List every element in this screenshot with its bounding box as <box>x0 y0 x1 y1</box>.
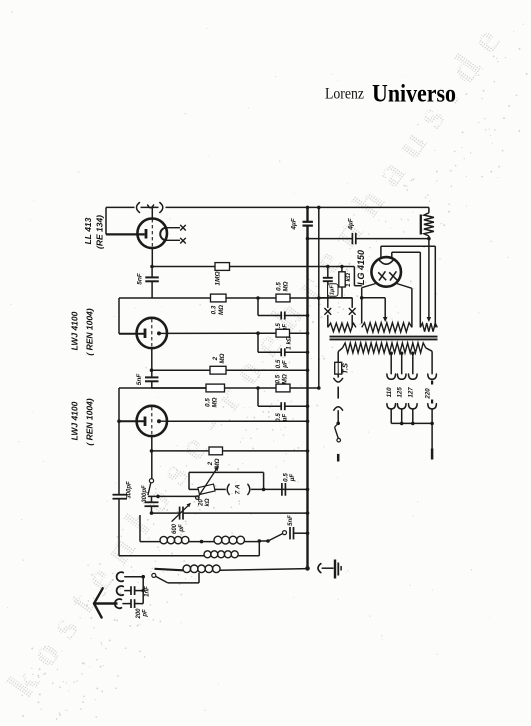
svg-text:1nF: 1nF <box>145 586 151 597</box>
wire HT row y=238.6 <box>306 237 310 241</box>
tube rectifier LG4150 <box>371 257 401 287</box>
switch contact <box>149 479 153 483</box>
wire anode B <box>391 252 393 258</box>
svg-text:MΩ: MΩ <box>218 305 225 315</box>
svg-text:Lorenz: Lorenz <box>325 86 364 103</box>
svg-text:220: 220 <box>424 388 431 400</box>
coil L1a <box>160 536 167 543</box>
resistor speaker field <box>428 207 430 212</box>
svg-text:127: 127 <box>408 387 415 398</box>
wire V1 filament leads <box>160 228 165 241</box>
wire row D <box>152 387 207 389</box>
wire row A <box>119 297 211 299</box>
capacitor 1nF <box>124 590 131 592</box>
wire grid V2 <box>118 298 120 334</box>
tap 220 <box>426 348 432 351</box>
wire V1 grid loop <box>105 207 107 234</box>
resistor 0.5M c <box>276 384 290 392</box>
wire anode A <box>380 246 382 258</box>
wire HT+ to winding <box>428 239 430 318</box>
wire filament left <box>362 284 376 288</box>
svg-text:2: 2 <box>207 461 214 466</box>
label 1uF boxed <box>328 284 338 296</box>
winding W1 filament <box>362 323 412 332</box>
svg-text:4µF: 4µF <box>291 217 298 230</box>
wire row plate V3 <box>167 420 308 422</box>
resistor 2M b <box>209 447 223 455</box>
tube V3 LWJ4100 <box>137 406 167 436</box>
wire coil row2 <box>119 555 204 557</box>
capacitor 5nF <box>151 267 153 278</box>
capacitor 5nF b <box>145 376 159 378</box>
tube V2 LWJ4100 <box>137 318 167 348</box>
capacitor 0.5uF d <box>281 483 283 496</box>
svg-text:0.5: 0.5 <box>276 282 283 291</box>
svg-text:LWJ 4100: LWJ 4100 <box>70 311 80 350</box>
coil L1b <box>214 536 222 544</box>
svg-text:(RE 134): (RE 134) <box>95 215 105 249</box>
resistor 1k a <box>276 329 290 337</box>
svg-text:( REN 1004): ( REN 1004) <box>85 398 95 445</box>
capacitor 0.5uF a <box>257 298 259 316</box>
wire B+ to rectifier <box>353 267 355 286</box>
svg-text:LWJ 4100: LWJ 4100 <box>70 401 80 440</box>
svg-text:1MΩ: 1MΩ <box>215 271 222 285</box>
wire row pickup <box>189 488 200 490</box>
wire main bus <box>306 206 310 210</box>
variable capacitor 600pF <box>179 507 181 520</box>
node B+ row <box>150 265 154 269</box>
svg-text:LG 4150: LG 4150 <box>356 250 366 285</box>
svg-text:4µF: 4µF <box>348 217 355 230</box>
switch mains <box>336 422 340 426</box>
speaker jack arcs <box>137 203 140 213</box>
resistor 1k b <box>341 267 343 272</box>
capacitor 0.5uF b <box>256 331 260 335</box>
tube V1 LL413 <box>137 219 167 249</box>
wire top line y=207 <box>106 206 135 208</box>
wire filament right <box>397 284 412 289</box>
svg-text:1µF: 1µF <box>329 284 335 295</box>
transformer core <box>330 336 438 338</box>
wire antenna bus <box>142 577 144 604</box>
coil L3 <box>155 569 184 571</box>
coil L2 <box>204 551 211 558</box>
node coil taps <box>258 539 262 543</box>
tap 125 <box>400 353 404 357</box>
resistor 0.3M <box>211 294 227 302</box>
switch wave <box>268 534 282 541</box>
winding primary <box>343 343 426 353</box>
svg-text:5nF: 5nF <box>136 373 143 386</box>
wire grid V3 <box>118 388 120 495</box>
box pickup <box>189 471 264 473</box>
resistor 1M <box>215 263 230 271</box>
svg-text:20: 20 <box>199 499 205 507</box>
svg-text:pF: pF <box>143 609 149 618</box>
x filament mark 4 <box>349 308 356 315</box>
plug contact lower <box>334 407 343 411</box>
plug contact upper <box>337 374 339 378</box>
jack arcs 7A <box>227 484 229 494</box>
svg-text:µF: µF <box>289 474 296 483</box>
wire L3 to ground bus <box>220 569 308 571</box>
wire row E <box>150 449 154 453</box>
svg-text:MΩ: MΩ <box>281 374 288 384</box>
svg-text:MΩ: MΩ <box>283 281 290 291</box>
wire coil row1 <box>139 515 141 542</box>
svg-text:0.5: 0.5 <box>205 398 212 407</box>
x filament mark 2 <box>180 238 186 244</box>
capacitor 300pF b <box>151 496 153 502</box>
svg-text:Universo: Universo <box>372 81 456 108</box>
mains lead right <box>431 423 433 448</box>
socket A2 <box>117 586 124 595</box>
capacitor 1uF <box>327 267 329 278</box>
tap 110 <box>389 353 393 357</box>
antenna arrow <box>94 602 118 605</box>
socket A1 <box>117 572 124 581</box>
wire mains join <box>391 422 432 424</box>
wire to potentiometer <box>148 495 197 497</box>
wire <box>189 541 214 543</box>
jack ground <box>305 566 310 571</box>
switch antenna <box>152 573 156 577</box>
svg-text:125: 125 <box>396 387 403 398</box>
ground <box>334 560 336 579</box>
svg-text:5nF: 5nF <box>288 515 294 526</box>
wire cathode V3 <box>151 436 153 479</box>
svg-text:kΩ: kΩ <box>205 498 211 506</box>
wire V1 plate lead <box>151 207 153 218</box>
capacitor 4uF b <box>351 233 353 244</box>
winding W2 HT <box>420 323 437 332</box>
resistor 0.5M b <box>206 384 225 392</box>
tap 127 <box>411 353 415 357</box>
resistor 0.5M a <box>276 294 290 302</box>
svg-text:2: 2 <box>212 356 219 361</box>
svg-text:110: 110 <box>386 387 393 397</box>
socket A3 <box>115 599 122 608</box>
plug pin <box>337 387 339 399</box>
capacitor 4uF a <box>303 221 313 223</box>
wire row B plate V2 <box>167 332 276 334</box>
capacitor 300pF a <box>113 494 128 496</box>
svg-text:0.3: 0.3 <box>211 305 218 314</box>
x filament mark 3 <box>324 308 331 315</box>
x filament mark 1 <box>180 225 186 231</box>
capacitor 5nF c <box>289 527 291 539</box>
wire row F <box>150 511 154 515</box>
svg-text:( REN 1004): ( REN 1004) <box>85 308 95 355</box>
svg-text:pF: pF <box>179 524 185 533</box>
wire row C <box>151 348 153 377</box>
capacitor 0.5uF c <box>257 388 259 406</box>
wire primary left <box>338 348 342 352</box>
svg-text:1 kΩ: 1 kΩ <box>286 336 293 350</box>
wire row A extension <box>319 297 352 299</box>
svg-text:1 kΩ: 1 kΩ <box>345 273 352 287</box>
svg-text:7 A: 7 A <box>235 484 242 494</box>
svg-text:200: 200 <box>136 608 142 620</box>
svg-text:600: 600 <box>172 523 178 534</box>
winding W0 filament <box>328 323 356 332</box>
fuse T.S <box>335 362 342 374</box>
svg-text:MΩ: MΩ <box>212 397 219 407</box>
potentiometer 20k <box>198 484 215 494</box>
svg-text:300pF: 300pF <box>127 481 133 499</box>
svg-text:MΩ: MΩ <box>219 353 226 363</box>
capacitor 200pF <box>122 603 131 605</box>
svg-text:300pF: 300pF <box>142 485 148 503</box>
svg-text:T.S: T.S <box>340 363 349 374</box>
svg-text:5nF: 5nF <box>136 272 143 285</box>
svg-text:LL 413: LL 413 <box>83 217 93 244</box>
svg-text:µF: µF <box>282 360 289 369</box>
wire B2 line <box>317 206 321 210</box>
mains lead left <box>337 454 340 462</box>
resistor 2M a <box>210 366 226 374</box>
